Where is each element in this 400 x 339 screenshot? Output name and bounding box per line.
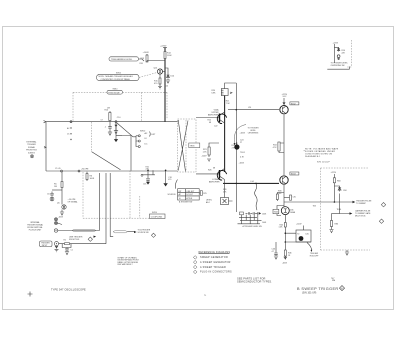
switch arm diagonal upper xyxy=(117,123,136,137)
svg-text:-100V: -100V xyxy=(282,263,288,265)
svg-text:68: 68 xyxy=(213,167,215,169)
legend row sweep generator xyxy=(193,256,228,260)
legend heading xyxy=(199,251,231,254)
transistor Q45 xyxy=(280,176,288,184)
svg-text:+100V: +100V xyxy=(143,52,150,54)
svg-text:DIAGRAM B-1: DIAGRAM B-1 xyxy=(305,155,321,158)
note box concentric w/ level xyxy=(97,74,140,81)
svg-text:CARRIER PULSE: CARRIER PULSE xyxy=(355,210,371,213)
svg-text:TD45: TD45 xyxy=(274,212,279,214)
diode D14 xyxy=(167,72,176,78)
resistor R86 xyxy=(329,214,338,233)
svg-text:100K: 100K xyxy=(90,178,95,180)
svg-text:TO SWEEP GATE: TO SWEEP GATE xyxy=(355,212,371,215)
node +100V label xyxy=(143,52,150,54)
note see parts list xyxy=(237,276,272,283)
svg-text:PLUG-IN CONNECTORS: PLUG-IN CONNECTORS xyxy=(200,271,232,274)
svg-text:SOURCE SW: SOURCE SW xyxy=(138,232,149,234)
legend row plug in xyxy=(193,270,232,274)
diode D84 xyxy=(334,186,346,192)
svg-text:FROM T601: FROM T601 xyxy=(69,239,79,241)
wire carrier tail xyxy=(332,213,340,215)
linkage dashed drop x91 xyxy=(91,122,93,152)
resistor R23 xyxy=(201,145,211,161)
svg-text:+100V: +100V xyxy=(239,163,245,165)
label R22 xyxy=(208,120,211,124)
legend row a sweep trigger xyxy=(193,260,230,264)
arrow curved trigger centering xyxy=(234,125,246,144)
svg-text:10MA: 10MA xyxy=(290,211,296,214)
label box B163 xyxy=(290,172,299,176)
svg-text:D45: D45 xyxy=(306,234,309,236)
node arrow line trig xyxy=(94,236,97,238)
svg-text:27: 27 xyxy=(240,142,242,144)
coupling cap group at x148 xyxy=(141,167,155,186)
svg-text:C35: C35 xyxy=(293,197,296,199)
wire slope divider drop xyxy=(61,172,63,212)
wire box feed xyxy=(285,226,303,234)
junction squiggle xyxy=(255,183,257,185)
note carrier out xyxy=(355,210,371,218)
svg-text:AMPLIFIER: AMPLIFIER xyxy=(209,181,220,184)
wire +225V right riser xyxy=(331,172,337,202)
svg-text:ADJ: ADJ xyxy=(206,201,210,204)
contact LF REJ xyxy=(136,136,148,142)
wire cathode join xyxy=(209,143,219,145)
contact sw slope xyxy=(70,121,72,123)
svg-text:C16: C16 xyxy=(143,184,146,186)
label R24 xyxy=(232,145,236,149)
chassis dashed tr xyxy=(347,40,351,67)
tunnel diode TD45 xyxy=(277,206,289,216)
note sn block xyxy=(305,148,339,164)
node +225V label xyxy=(160,46,167,48)
label R36a xyxy=(223,189,227,193)
contact DC xyxy=(136,141,148,148)
capacitor C1 xyxy=(62,244,73,255)
svg-text:TL: TL xyxy=(204,295,206,297)
ladder arrow right xyxy=(259,212,261,214)
resistor R13 xyxy=(141,55,149,62)
svg-text:R26: R26 xyxy=(208,170,211,172)
svg-text:A SW B: A SW B xyxy=(28,151,35,154)
label box B162 xyxy=(290,102,299,106)
note internal trigger xyxy=(27,221,43,232)
svg-text:TYPE 547 OSCILLOSCOPE: TYPE 547 OSCILLOSCOPE xyxy=(51,288,86,291)
label C26 xyxy=(208,167,215,171)
svg-text:110K: 110K xyxy=(167,55,172,57)
wire grid entry upper xyxy=(196,117,220,119)
svg-text:TRIG: TRIG xyxy=(190,146,195,148)
capacitor C10 xyxy=(105,122,112,130)
box Q20 feedback xyxy=(221,89,228,96)
control trigger input box xyxy=(40,241,53,247)
svg-text:C22: C22 xyxy=(214,126,217,128)
wire upper trigger bus xyxy=(46,121,178,123)
wire q34 emitter riser xyxy=(283,115,285,175)
svg-text:SOURCE: SOURCE xyxy=(168,194,177,196)
arrow holdoff xyxy=(307,243,312,251)
note holdoff xyxy=(310,253,319,257)
note external trigger xyxy=(26,141,37,155)
contact dots column xyxy=(70,127,71,140)
label R21 xyxy=(226,101,231,105)
svg-text:L34: L34 xyxy=(251,181,254,183)
box holdoff xyxy=(296,230,311,242)
chassis dashed bottom run xyxy=(321,249,371,251)
connector int trig b xyxy=(55,222,58,225)
svg-text:FROM TRIG: FROM TRIG xyxy=(26,150,37,152)
squiggle cable xyxy=(255,183,258,210)
resistor R15 xyxy=(154,78,161,85)
ground under Q6 xyxy=(58,212,64,219)
wire level pot leader xyxy=(139,59,145,61)
svg-text:68: 68 xyxy=(209,122,211,124)
connector ext bnc xyxy=(54,242,58,252)
svg-text:R25: R25 xyxy=(203,193,206,195)
svg-text:LINE EXT: LINE EXT xyxy=(186,191,195,193)
ground below R15 xyxy=(158,84,162,89)
wire int sig line xyxy=(58,230,100,232)
svg-text:A SWEEP TRIGGER: A SWEEP TRIGGER xyxy=(200,266,226,269)
junction dots x236 xyxy=(236,109,238,184)
wire td45 down xyxy=(284,215,286,242)
linkage dashed drop x83 xyxy=(82,172,84,218)
transistor V24B lower xyxy=(217,167,226,184)
svg-text:SW10: SW10 xyxy=(113,88,118,90)
resistor right of wafer xyxy=(199,191,206,196)
svg-text:+225V: +225V xyxy=(331,172,337,174)
label +100V up xyxy=(296,224,302,226)
svg-text:R84: R84 xyxy=(337,180,340,182)
diamond a trigger xyxy=(151,233,155,237)
svg-text:FROM VERTICAL: FROM VERTICAL xyxy=(27,226,42,229)
resistor R5 xyxy=(54,182,63,188)
capacitor C46 xyxy=(272,242,279,259)
svg-text:B SWEEP TRIGGER: B SWEEP TRIGGER xyxy=(297,287,339,291)
diamond sweep gen 2 xyxy=(379,219,383,223)
switch wafer inner dash xyxy=(185,120,187,171)
svg-text:T84: T84 xyxy=(313,206,316,208)
svg-text:24-2: 24-2 xyxy=(283,96,287,98)
linkage dashed right run xyxy=(123,92,168,119)
svg-text:+100V: +100V xyxy=(240,133,246,135)
svg-text:TRIGGER: TRIGGER xyxy=(27,144,36,146)
junction trigger out xyxy=(334,201,336,203)
capacitor C6 xyxy=(47,192,54,197)
symbol screwdriver adj xyxy=(30,155,33,158)
resistor R35 xyxy=(276,193,284,202)
label +225V q34 xyxy=(282,94,288,105)
label R36 xyxy=(278,191,283,195)
svg-text:+SLOPE: +SLOPE xyxy=(81,169,89,171)
diamond sweep gen xyxy=(381,203,385,207)
resistor R46 xyxy=(282,242,291,265)
linkage dashed drop x130 xyxy=(129,171,131,219)
linkage dashed drop x140 xyxy=(139,196,141,218)
transistor Q5 xyxy=(50,197,54,201)
svg-text:HOLDOFF: HOLDOFF xyxy=(310,255,319,257)
wire riser group from switch xyxy=(100,173,114,244)
resistor R6 xyxy=(86,172,95,181)
resistor R1 xyxy=(64,239,70,244)
transistor tr xyxy=(337,55,340,60)
ground at wafer left xyxy=(163,170,171,187)
contact AC xyxy=(136,132,148,137)
wire box top corner to x236 xyxy=(225,83,237,89)
svg-text:SIGNAL: SIGNAL xyxy=(28,146,35,149)
resistor R37 stub xyxy=(284,195,296,200)
svg-text:470: 470 xyxy=(168,179,171,181)
ladder top row caps xyxy=(240,212,259,215)
svg-text:CONCENTRIC ON FRONT PANEL: CONCENTRIC ON FRONT PANEL xyxy=(101,78,131,81)
ground under C10 xyxy=(108,123,118,136)
coax shield b xyxy=(113,231,134,233)
wire level adj stub xyxy=(225,183,233,201)
svg-text:TD84: TD84 xyxy=(337,209,342,211)
svg-text:C84: C84 xyxy=(343,190,346,192)
bracket ext xyxy=(149,132,152,137)
svg-text:TRIGGER SIGNAL: TRIGGER SIGNAL xyxy=(27,223,43,226)
svg-text:TO SWEEP: TO SWEEP xyxy=(356,203,367,205)
wire q45 down xyxy=(283,185,285,207)
resistor R84 xyxy=(333,178,340,183)
resistor R14 xyxy=(164,52,172,59)
svg-text:CENTERING: CENTERING xyxy=(248,133,259,135)
svg-text:SWEEP GENERATOR: SWEEP GENERATOR xyxy=(200,256,228,259)
svg-text:-100V: -100V xyxy=(58,217,64,219)
switch label box COUPLING xyxy=(150,212,166,219)
node arrow carrier out xyxy=(350,212,353,214)
node arrow left end xyxy=(44,121,47,123)
ladder drops xyxy=(242,215,258,224)
linkage dashed top run xyxy=(73,91,107,93)
transistor V24A upper xyxy=(217,110,226,125)
label slope text xyxy=(68,199,78,204)
resistor R34 xyxy=(273,142,284,153)
switch arm diagonal lower xyxy=(92,152,121,170)
register mark xyxy=(28,292,33,297)
label lower amplifier xyxy=(209,179,220,184)
node arrow ext sw xyxy=(134,231,137,233)
svg-text:INPUT: INPUT xyxy=(42,245,49,247)
svg-text:AMPLIFIER: AMPLIFIER xyxy=(208,114,219,117)
svg-text:COUPLING: COUPLING xyxy=(151,217,163,219)
svg-text:R1: R1 xyxy=(64,239,66,241)
contact slope1 xyxy=(61,170,63,172)
contact slope2 xyxy=(78,170,80,172)
resistor R10 xyxy=(105,107,112,121)
svg-text:(S/N 101-UP): (S/N 101-UP) xyxy=(302,292,317,295)
wire int trig arm xyxy=(58,223,63,225)
svg-text:+225V: +225V xyxy=(333,42,339,44)
transistor Q14 xyxy=(154,68,166,75)
diode D l4 xyxy=(334,47,345,54)
node arrow trigger out xyxy=(353,201,356,203)
junction dot xyxy=(285,241,287,243)
ground below D14 xyxy=(165,79,171,88)
switch wafer frame dashed xyxy=(178,119,196,172)
svg-text:RM: RM xyxy=(332,280,335,282)
wire x116 drop xyxy=(114,123,122,142)
svg-text:DC EXT: DC EXT xyxy=(186,194,193,196)
note to a trigger xyxy=(138,229,151,234)
svg-text:SW10: SW10 xyxy=(152,212,157,214)
wire trigger output bus xyxy=(284,201,353,203)
chassis dashed vertical xyxy=(320,168,322,250)
svg-text:10: 10 xyxy=(179,198,181,200)
svg-text:CENTERING SW: CENTERING SW xyxy=(331,65,345,67)
svg-text:EXTERNAL: EXTERNAL xyxy=(27,141,37,144)
contact C10 xyxy=(115,117,121,123)
svg-text:C1: C1 xyxy=(71,250,73,252)
tunnel diode TD24 xyxy=(234,142,239,149)
diamond line trig xyxy=(88,237,92,241)
linkage dotted drop mid xyxy=(141,92,143,121)
wire vertical x130 xyxy=(122,136,131,171)
ground on dashed xyxy=(345,250,349,255)
note trigger pulse out xyxy=(356,200,372,205)
connector int trig c xyxy=(54,229,57,232)
wire lower trigger bus xyxy=(46,171,220,174)
wire upper collector bus xyxy=(228,109,279,111)
svg-text:R86: R86 xyxy=(335,224,338,226)
chassis dashed top run xyxy=(321,167,369,169)
wire note leader dashed xyxy=(139,73,157,78)
wire box bottom join xyxy=(285,241,311,243)
wire emitter to diode xyxy=(160,68,168,78)
label box TD45 xyxy=(273,209,279,213)
wire tr riser xyxy=(333,44,335,63)
diamond B xyxy=(340,286,345,291)
svg-text:A TRIGGER SW: A TRIGGER SW xyxy=(179,201,192,204)
svg-text:L24: L24 xyxy=(248,107,251,109)
connector int trig a xyxy=(55,218,58,221)
legend row b sweep xyxy=(193,265,226,269)
wire lower collector bus xyxy=(223,182,279,184)
svg-text:A SWEEP GENERATOR: A SWEEP GENERATOR xyxy=(200,261,231,264)
wire ext input line xyxy=(59,243,106,245)
svg-text:S/N 101-UP: S/N 101-UP xyxy=(317,162,330,164)
wire carrier drop xyxy=(340,194,350,214)
svg-text:SW15: SW15 xyxy=(116,73,121,75)
note leader dash a xyxy=(303,150,305,152)
linkage dashed left drop xyxy=(72,92,74,121)
wire x236 long riser xyxy=(235,83,237,212)
wire collector riser xyxy=(224,96,226,173)
svg-text:TRIGGERING LEVEL: TRIGGERING LEVEL xyxy=(111,59,133,61)
wire line trig label xyxy=(69,236,83,241)
resistor R46a xyxy=(279,223,287,229)
control STABILITY oval xyxy=(107,88,123,94)
svg-text:C5 .05: C5 .05 xyxy=(55,168,61,170)
svg-text:A TRIGGER LEVEL SW: A TRIGGER LEVEL SW xyxy=(243,225,262,228)
svg-text:TRIG MODE: TRIG MODE xyxy=(108,92,120,94)
svg-text:REF VAR RESULT: REF VAR RESULT xyxy=(118,263,134,266)
svg-text:INTERNAL: INTERNAL xyxy=(30,221,39,224)
arrow to riser xyxy=(44,147,46,149)
svg-text:OF SIGNAL: OF SIGNAL xyxy=(68,201,78,204)
svg-text:PLUG-IN UNIT: PLUG-IN UNIT xyxy=(29,230,42,232)
label box Q20 xyxy=(212,90,217,94)
svg-text:-100V: -100V xyxy=(201,156,207,158)
switch grid box SW25 xyxy=(178,189,200,200)
label wafer box xyxy=(189,143,200,148)
label near dots xyxy=(67,127,70,136)
svg-text:TD24: TD24 xyxy=(240,152,245,154)
svg-text:+100V: +100V xyxy=(296,224,302,226)
labels TD24 column xyxy=(239,133,246,165)
svg-text:ATTEN: ATTEN xyxy=(186,197,192,200)
svg-text:C9: C9 xyxy=(101,120,103,122)
svg-text:1M: 1M xyxy=(54,186,57,188)
control TRIGGERING LEVEL xyxy=(109,57,139,61)
svg-text:4.7: 4.7 xyxy=(272,251,275,253)
transistor Q6 xyxy=(57,203,66,210)
svg-text:MULTI V135: MULTI V135 xyxy=(355,216,365,218)
wire +225V riser xyxy=(164,48,166,122)
wire left riser xyxy=(45,122,47,171)
ladder bus rows xyxy=(238,218,262,224)
linkage dashed run y218 xyxy=(83,217,150,219)
note trigger centering xyxy=(247,128,259,135)
note tr xyxy=(331,63,348,67)
switch wafer X xyxy=(178,120,188,172)
label upper amplifier xyxy=(208,109,219,117)
coax shield a xyxy=(72,229,96,231)
label C22 xyxy=(214,126,217,128)
svg-text:SEMICONDUCTOR TYPES.: SEMICONDUCTOR TYPES. xyxy=(237,280,272,284)
transistor Q34 xyxy=(280,106,288,114)
svg-text:1M: 1M xyxy=(107,107,110,109)
svg-text:R16: R16 xyxy=(140,63,143,65)
wire tr bottom xyxy=(327,67,349,70)
wire curve into wafer xyxy=(175,180,177,189)
note front panel block xyxy=(118,256,140,266)
node arrow at box xyxy=(230,92,232,94)
label D45 xyxy=(290,210,296,214)
control LEVEL ADJ box xyxy=(206,198,229,205)
svg-text:NOTE: THIS AND TRIGGER LEVEL A: NOTE: THIS AND TRIGGER LEVEL ADJ xyxy=(99,75,133,78)
wire R13 to riser xyxy=(147,54,165,62)
wire c6 stub xyxy=(52,189,62,191)
